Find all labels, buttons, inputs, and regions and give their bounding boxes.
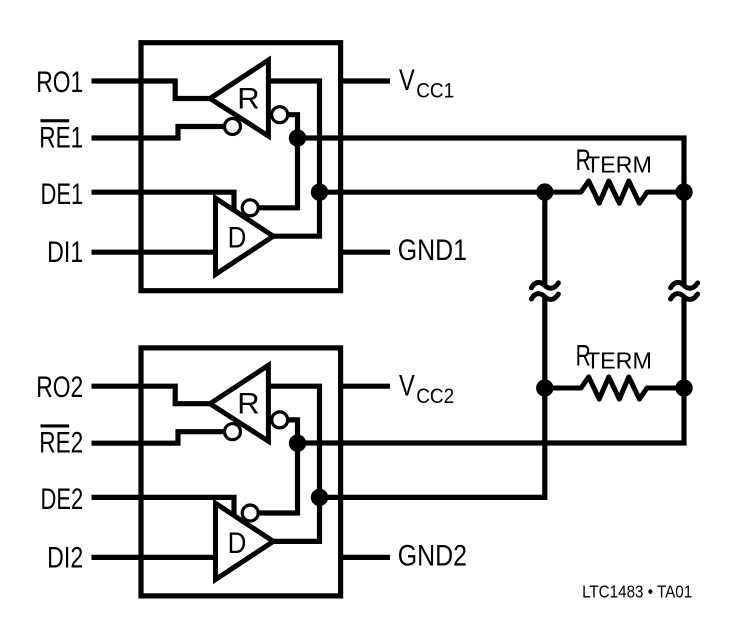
svg-text:DI1: DI1 bbox=[47, 236, 83, 269]
label D driver U2 bbox=[228, 526, 247, 559]
svg-text:RE1: RE1 bbox=[39, 121, 83, 155]
svg-text:R: R bbox=[237, 83, 259, 115]
label RTERM 2 R bbox=[576, 340, 591, 372]
svg-text:RO2: RO2 bbox=[36, 370, 83, 404]
wire node A2 to driver inverted output bubble bbox=[258, 443, 297, 513]
label GND2 bbox=[398, 538, 467, 571]
svg-text:D: D bbox=[228, 526, 247, 559]
wire RE1 to receiver enable bubble bbox=[92, 127, 225, 139]
label VCC1 V bbox=[399, 64, 415, 97]
IC U2 box bbox=[141, 348, 341, 596]
break symbol left bus wave 2 bbox=[531, 294, 558, 300]
wire driver U2 output to node B2 bbox=[272, 499, 320, 541]
driver U2 triangle bbox=[216, 503, 274, 579]
pin label DE1 bbox=[40, 177, 83, 211]
IC U1 box bbox=[141, 43, 341, 291]
wire RO2 to receiver output bbox=[92, 386, 212, 404]
wire receiver noninverting input to node B1 bbox=[268, 81, 319, 192]
label R receiver U1 bbox=[237, 83, 259, 115]
label VCC2 subscript bbox=[416, 385, 454, 408]
pin label RE2 overline bbox=[41, 424, 70, 427]
junction dot node B1 bbox=[311, 184, 328, 201]
label RTERM 1 R bbox=[576, 144, 591, 176]
wire right bus vertical lower to bus line A bottom bbox=[298, 298, 685, 443]
svg-text:CC1: CC1 bbox=[416, 80, 454, 103]
wire node A1 to driver inverted output bubble bbox=[258, 138, 297, 208]
pin VCC2 stub bbox=[340, 384, 390, 389]
wire receiver inverting input to node A2 bbox=[288, 420, 298, 445]
pin GND1 stub bbox=[340, 250, 390, 255]
junction dot termination 2 left bbox=[536, 379, 553, 396]
break symbol right bus wave 2 bbox=[671, 294, 698, 300]
svg-text:LTC1483 • TA01: LTC1483 • TA01 bbox=[582, 581, 692, 602]
label R receiver U2 bbox=[237, 388, 259, 420]
junction dot termination 1 left bbox=[536, 183, 553, 200]
junction dot termination 2 right bbox=[675, 379, 692, 396]
junction dot termination 1 right bbox=[675, 183, 692, 200]
svg-text:V: V bbox=[399, 64, 415, 97]
break symbol right bus wave 1 bbox=[671, 282, 698, 288]
svg-text:V: V bbox=[399, 369, 415, 402]
bubble receiver enable RE1 bbox=[225, 119, 241, 135]
wire DE1 to driver enable bbox=[92, 192, 235, 213]
pin label DI2 bbox=[47, 541, 83, 574]
svg-text:RO1: RO1 bbox=[36, 65, 83, 99]
label VCC1 subscript bbox=[416, 80, 454, 103]
bubble driver inverted output U2 bbox=[242, 505, 258, 521]
pin label RE1 overline bbox=[41, 119, 70, 122]
label RTERM 1 subscript bbox=[586, 152, 652, 178]
wire bus line B top bbox=[320, 190, 545, 195]
break symbol left bus wave 1 bbox=[531, 282, 558, 288]
receiver U1 triangle bbox=[210, 60, 268, 136]
svg-text:GND2: GND2 bbox=[398, 538, 467, 571]
driver U1 triangle bbox=[216, 198, 274, 274]
label VCC2 V bbox=[399, 369, 415, 402]
wire driver U1 output to node B1 bbox=[272, 194, 320, 236]
bubble driver inverted output U1 bbox=[242, 200, 258, 216]
svg-text:DE1: DE1 bbox=[40, 177, 83, 211]
svg-text:DE2: DE2 bbox=[40, 482, 83, 516]
wire RO1 to receiver output bbox=[92, 81, 212, 99]
wire right bus vertical upper bbox=[681, 192, 686, 284]
caption LTC1483 TA01 bbox=[582, 581, 692, 602]
label GND1 bbox=[398, 233, 467, 266]
pin label DI1 bbox=[47, 236, 83, 269]
svg-text:DI2: DI2 bbox=[47, 541, 83, 574]
junction dot node B2 bbox=[311, 489, 328, 506]
junction dot node A1 bbox=[289, 129, 306, 146]
wire receiver inverting input to node A1 bbox=[288, 115, 298, 140]
receiver U2 triangle bbox=[210, 365, 268, 441]
bubble receiver inverting input U2 bbox=[272, 412, 288, 428]
svg-text:D: D bbox=[228, 221, 247, 254]
bubble receiver enable RE2 bbox=[225, 424, 241, 440]
pin VCC1 stub bbox=[340, 78, 390, 83]
label RTERM 2 subscript bbox=[586, 348, 652, 374]
svg-text:CC2: CC2 bbox=[416, 385, 454, 408]
svg-text:TERM: TERM bbox=[586, 348, 652, 374]
wire bus line A top bbox=[298, 138, 685, 192]
resistor RTERM 2 bbox=[545, 377, 684, 399]
wire RE2 to receiver enable bubble bbox=[92, 432, 225, 444]
pin label RE1 bbox=[39, 121, 83, 155]
wire left bus vertical lower to bus line B bottom bbox=[320, 298, 545, 497]
junction dot node A2 bbox=[289, 435, 306, 452]
wire DE2 to driver enable bbox=[92, 497, 235, 518]
resistor RTERM 1 bbox=[545, 181, 684, 203]
svg-text:GND1: GND1 bbox=[398, 233, 467, 266]
wire receiver noninverting input to node B2 bbox=[268, 386, 319, 497]
wire left bus vertical upper bbox=[542, 192, 547, 284]
bubble receiver inverting input U1 bbox=[272, 107, 288, 123]
svg-text:TERM: TERM bbox=[586, 152, 652, 178]
wire DI1 to driver input bbox=[92, 250, 219, 255]
pin label RO1 bbox=[36, 65, 83, 99]
wire DI2 to driver input bbox=[92, 555, 219, 560]
pin label DE2 bbox=[40, 482, 83, 516]
pin label RO2 bbox=[36, 370, 83, 404]
label D driver U1 bbox=[228, 221, 247, 254]
pin label RE2 bbox=[39, 426, 83, 460]
svg-text:R: R bbox=[237, 388, 259, 420]
pin GND2 stub bbox=[340, 555, 390, 560]
svg-text:RE2: RE2 bbox=[39, 426, 83, 460]
